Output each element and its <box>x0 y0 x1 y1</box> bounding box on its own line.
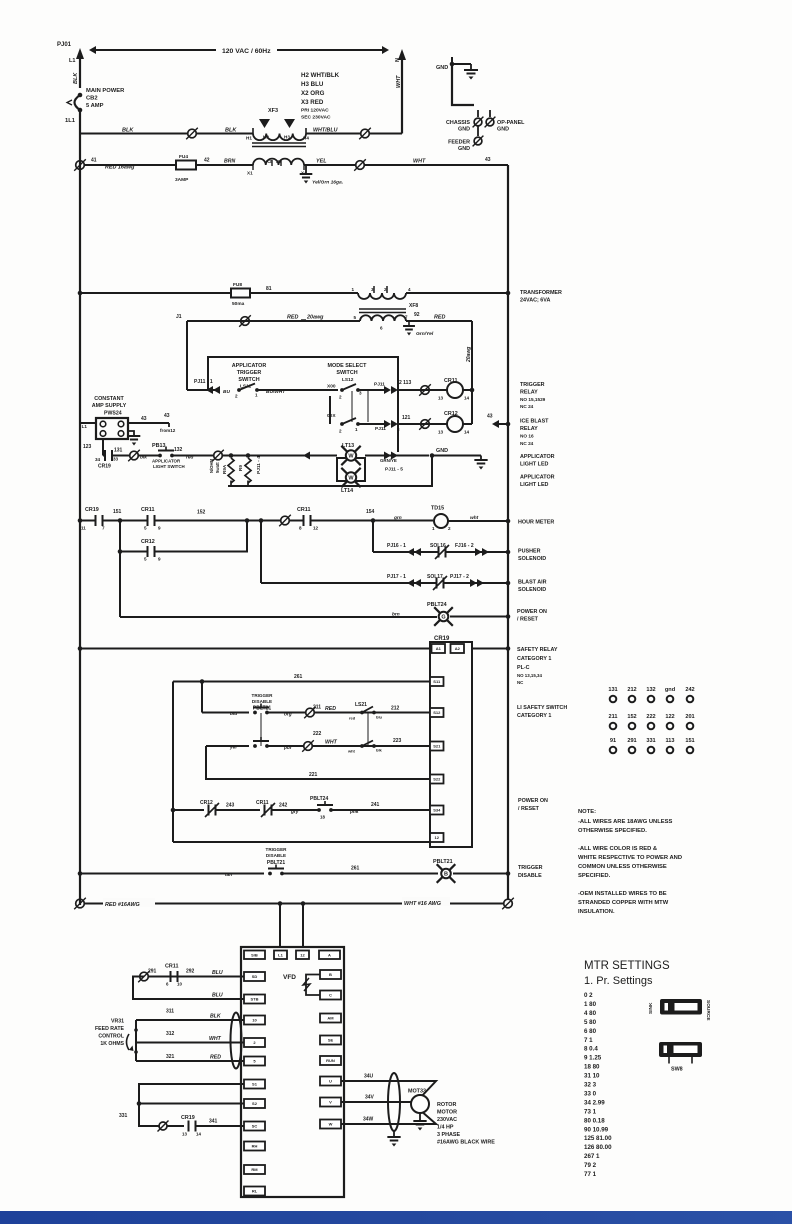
wire GND earth <box>432 456 488 470</box>
label CONSTANT AMP SUPPLY <box>92 396 127 417</box>
terminal SE <box>320 1036 341 1045</box>
svg-text:12: 12 <box>435 835 440 840</box>
svg-text:FJ16 - 2: FJ16 - 2 <box>455 543 474 549</box>
label N <box>395 58 401 62</box>
wire yel row <box>206 745 249 751</box>
label PJ11 3 121 <box>375 415 411 432</box>
svg-text:brn: brn <box>392 612 400 618</box>
svg-text:S21: S21 <box>433 744 441 749</box>
node L1 up-arrow <box>69 48 84 88</box>
svg-text:242: 242 <box>279 803 288 809</box>
wire BU/WHT <box>257 389 338 395</box>
wire PJ17 row <box>261 574 421 587</box>
svg-text:WHITE RESPECTIVE TO POWER AND: WHITE RESPECTIVE TO POWER AND <box>578 855 682 861</box>
wire pur <box>267 745 304 751</box>
svg-text:CR19: CR19 <box>85 507 99 513</box>
svg-text:N/OHM: N/OHM <box>209 459 214 473</box>
wire N vertical <box>398 49 406 134</box>
svg-text:WHT: WHT <box>209 1036 222 1042</box>
svg-text:73 1: 73 1 <box>584 1108 597 1115</box>
pilot lamp PBLT24 <box>427 602 453 626</box>
svg-text:113: 113 <box>665 738 674 744</box>
svg-text:5 AMP: 5 AMP <box>86 103 104 109</box>
label PUSHER SOLENOID <box>518 549 546 563</box>
svg-text:BLU: BLU <box>212 970 223 976</box>
wire PJ17 to bus <box>487 581 510 586</box>
svg-text:211: 211 <box>313 705 321 711</box>
svg-text:A1: A1 <box>436 646 442 651</box>
svg-text:1K OHMS: 1K OHMS <box>100 1041 124 1047</box>
wire WHT row <box>364 157 508 165</box>
svg-text:NC 24: NC 24 <box>520 441 534 446</box>
svg-text:8 0.4: 8 0.4 <box>584 1046 598 1053</box>
wire 00X box <box>329 396 331 424</box>
svg-text:COMMON UNLESS OTHERWISE: COMMON UNLESS OTHERWISE <box>578 864 667 870</box>
wire CR19 to bus <box>472 646 510 651</box>
svg-text:2: 2 <box>448 526 451 531</box>
label 81 <box>266 286 272 292</box>
terminal W <box>320 1120 341 1129</box>
svg-text:42: 42 <box>204 158 210 164</box>
svg-text:92: 92 <box>414 312 420 318</box>
svg-text:SE: SE <box>328 1038 334 1043</box>
svg-text:B: B <box>444 872 448 878</box>
terminal S34 <box>430 806 444 815</box>
svg-text:NC: NC <box>517 680 524 685</box>
terminal 10 <box>244 1016 265 1025</box>
svg-text:Yel/Grn 16ga.: Yel/Grn 16ga. <box>312 180 343 186</box>
node grid row 1 <box>608 687 694 702</box>
svg-text:0 2: 0 2 <box>584 992 593 999</box>
terminal 2 <box>244 1038 265 1047</box>
svg-text:SOLENOID: SOLENOID <box>518 556 546 562</box>
svg-text:RH: RH <box>252 1144 258 1149</box>
label MTR SETTINGS <box>584 960 670 987</box>
contact CR12 nc <box>200 800 235 817</box>
wire to PB13 <box>138 455 160 457</box>
terminal RH <box>244 1142 265 1151</box>
switch LS21 <box>349 702 400 721</box>
svg-text:CB2: CB2 <box>86 96 98 102</box>
connector 222 <box>302 731 321 752</box>
bottom blue bar <box>0 1211 792 1224</box>
svg-text:H3 BLU: H3 BLU <box>301 81 324 88</box>
connector J1 row <box>239 315 251 327</box>
label BU <box>223 389 230 395</box>
svg-text:1: 1 <box>432 526 435 531</box>
node 1L1 <box>65 118 76 124</box>
svg-text:X00: X00 <box>327 384 336 390</box>
svg-text:33 0: 33 0 <box>584 1090 597 1097</box>
svg-text:261: 261 <box>294 674 303 680</box>
svg-text:43: 43 <box>141 416 147 422</box>
svg-text:CR11: CR11 <box>297 507 310 513</box>
svg-text:CR12: CR12 <box>141 539 155 545</box>
wire FJ16-2 <box>446 543 493 556</box>
svg-text:8: 8 <box>299 526 302 531</box>
wire org <box>267 712 306 718</box>
ground cable <box>387 1131 400 1147</box>
svg-text:3AMP: 3AMP <box>175 177 189 183</box>
terminal L1 <box>274 951 287 960</box>
svg-text:PJ11 - 1: PJ11 - 1 <box>194 379 213 385</box>
wire BLK row 2 <box>196 128 253 134</box>
svg-text:3: 3 <box>359 391 362 396</box>
svg-text:PJ11 - 5: PJ11 - 5 <box>385 467 403 473</box>
label block H2 wiring <box>301 72 340 121</box>
terminal S2 <box>244 1099 265 1108</box>
label CR19 relay <box>434 636 450 642</box>
svg-text:9 1.25: 9 1.25 <box>584 1055 602 1062</box>
svg-text:14: 14 <box>464 396 470 401</box>
svg-text:pnk: pnk <box>349 809 359 815</box>
svg-text:DISABLE: DISABLE <box>266 853 286 858</box>
svg-text:NO 13,15,34: NO 13,15,34 <box>517 673 542 678</box>
switch 00X <box>327 413 360 434</box>
svg-text:BLK: BLK <box>73 72 79 84</box>
svg-text:24VAC; 6VA: 24VAC; 6VA <box>520 298 550 304</box>
label 123 <box>83 444 92 450</box>
svg-text:20awg: 20awg <box>306 315 324 321</box>
svg-text:-ALL WIRE COLOR IS RED &: -ALL WIRE COLOR IS RED & <box>578 846 657 852</box>
svg-text:211: 211 <box>608 714 617 720</box>
svg-text:CR12: CR12 <box>444 411 458 417</box>
svg-text:W: W <box>329 1122 333 1127</box>
svg-text:XF3: XF3 <box>268 108 278 114</box>
svg-text:151: 151 <box>113 509 122 515</box>
svg-text:5 80: 5 80 <box>584 1019 597 1026</box>
lamp box LT13 LT14 <box>337 458 365 481</box>
svg-text:LIGHT SWITCH: LIGHT SWITCH <box>153 464 185 469</box>
svg-text:APPLICATOR: APPLICATOR <box>232 363 267 369</box>
vfd box <box>241 947 344 1197</box>
node grid row 2 <box>608 714 694 729</box>
svg-text:X1: X1 <box>247 171 253 176</box>
connector on WHT/BLU <box>359 128 371 140</box>
svg-text:MTR SETTINGS: MTR SETTINGS <box>584 960 670 972</box>
terminal S21 <box>430 742 444 751</box>
svg-text:LS12: LS12 <box>342 377 354 383</box>
ground PWS24 <box>128 431 141 446</box>
switch PBLT21 trigger <box>268 865 284 876</box>
wire LS11 row <box>187 386 220 394</box>
svg-text:267 1: 267 1 <box>584 1153 600 1160</box>
svg-text:5: 5 <box>144 526 147 531</box>
svg-text:WHT: WHT <box>396 75 402 88</box>
contact CR11 hour <box>141 507 161 531</box>
svg-text:6: 6 <box>380 326 383 331</box>
terminal C <box>320 991 341 1000</box>
svg-text:10: 10 <box>177 982 182 987</box>
svg-text:90 10.99: 90 10.99 <box>584 1126 609 1133</box>
svg-text:XF8: XF8 <box>409 303 418 309</box>
svg-text:PJ11: PJ11 <box>374 382 385 388</box>
pot VR31 wires <box>136 1009 244 1062</box>
svg-text:WHT: WHT <box>413 159 426 165</box>
switch PBLT21 pole2 <box>253 737 269 748</box>
connector on BLK row <box>186 128 198 140</box>
wire PWS24 43 <box>128 413 176 433</box>
wire J1 row <box>176 314 360 321</box>
fuse FU4 <box>175 154 196 183</box>
svg-text:SOL16: SOL16 <box>430 543 446 549</box>
transformer XF8 secondary <box>353 312 419 331</box>
svg-text:212: 212 <box>391 706 400 712</box>
svg-text:-OEM INSTALLED WIRES TO BE: -OEM INSTALLED WIRES TO BE <box>578 891 667 897</box>
svg-text:R9A: R9A <box>222 464 227 474</box>
node GND dot <box>436 57 454 71</box>
wire YEL <box>304 159 356 166</box>
label APPLICATOR LIGHT LED 2 <box>520 475 555 489</box>
svg-text:13: 13 <box>438 396 444 401</box>
svg-text:13: 13 <box>182 1132 187 1137</box>
label TRANSFORMER 24VAC <box>520 290 562 304</box>
svg-text:222: 222 <box>646 714 655 720</box>
svg-text:FU4: FU4 <box>179 154 188 160</box>
wire BLU rows <box>133 970 244 999</box>
svg-text:INSULATION.: INSULATION. <box>578 909 615 915</box>
wire 152 <box>155 510 282 523</box>
svg-text:331: 331 <box>119 1113 128 1119</box>
svg-text:PBLT24: PBLT24 <box>310 796 328 802</box>
transformer XF8 primary <box>351 286 411 299</box>
wire PJ17-2 <box>444 574 488 587</box>
connector RED16AWG <box>74 898 86 910</box>
terminal RL <box>244 1187 265 1196</box>
svg-text:H2 WHT/BLK: H2 WHT/BLK <box>301 72 340 79</box>
wire to lamps <box>248 452 337 460</box>
switch LS11 <box>235 384 259 399</box>
svg-text:CR19: CR19 <box>181 1115 195 1121</box>
svg-text:NO 15,1529: NO 15,1529 <box>520 397 546 402</box>
label GRN/YE PJ11-5 <box>380 458 403 473</box>
svg-text:PJ11 - 4: PJ11 - 4 <box>256 456 262 474</box>
wire lamp return <box>228 456 432 487</box>
wire W <box>341 1110 436 1124</box>
svg-text:-ALL WIRES ARE 18AWG UNLESS: -ALL WIRES ARE 18AWG UNLESS <box>578 819 673 825</box>
svg-text:33: 33 <box>113 457 119 462</box>
svg-text:blu: blu <box>376 715 383 720</box>
svg-text:blu: blu <box>230 711 237 717</box>
svg-text:PJ17 - 1: PJ17 - 1 <box>387 574 406 580</box>
svg-text:3: 3 <box>371 287 374 292</box>
svg-text:gnd: gnd <box>665 687 676 693</box>
label MAIN POWER CB2 5 AMP <box>86 88 125 109</box>
connector WHT16AWG <box>502 898 514 910</box>
wire to CR12 coil <box>398 423 447 425</box>
svg-text:BU/WHT: BU/WHT <box>266 389 286 395</box>
svg-text:80 0.18: 80 0.18 <box>584 1117 605 1124</box>
svg-text:SWITCH: SWITCH <box>336 370 357 376</box>
svg-text:B: B <box>329 972 332 977</box>
resistor R9A <box>209 458 234 483</box>
svg-text:131: 131 <box>608 687 617 693</box>
svg-text:TRIGGER: TRIGGER <box>518 865 543 871</box>
svg-text:OTHERWISE SPECIFIED.: OTHERWISE SPECIFIED. <box>578 828 647 834</box>
wire pnk 241 <box>331 802 430 815</box>
terminal SD <box>244 972 265 981</box>
wire safety box bottom <box>173 841 430 843</box>
svg-text:34U: 34U <box>364 1074 374 1080</box>
svg-text:1/4 HP: 1/4 HP <box>437 1125 454 1131</box>
terminal S12 <box>430 708 444 717</box>
svg-text:13: 13 <box>438 430 444 435</box>
label 41 <box>91 158 97 164</box>
svg-text:NO 16: NO 16 <box>520 434 534 439</box>
fuse FU8 <box>231 282 250 307</box>
wire VFD L1 drop <box>278 901 283 947</box>
label POWER ON RESET 2 <box>518 798 548 812</box>
relay CR19 body <box>430 642 472 847</box>
lamp LT14 <box>341 468 361 494</box>
svg-text:RL: RL <box>252 1189 258 1194</box>
contact CR11b <box>289 507 319 531</box>
svg-text:S34: S34 <box>433 808 441 813</box>
wire to resistors <box>222 453 250 458</box>
wire resistor stubs <box>231 481 248 487</box>
svg-text:91: 91 <box>610 738 616 744</box>
svg-text:STRANDED COPPER WITH MTW: STRANDED COPPER WITH MTW <box>578 900 669 906</box>
label TRIGGER DISABLE PBLT21 <box>252 693 274 712</box>
svg-text:221: 221 <box>309 772 318 778</box>
svg-text:BLU: BLU <box>212 993 223 999</box>
svg-text:18: 18 <box>320 815 325 820</box>
svg-text:CATEGORY 1: CATEGORY 1 <box>517 656 551 662</box>
wire PBLT24 row <box>120 612 437 618</box>
svg-text:org: org <box>284 712 292 718</box>
svg-text:3: 3 <box>397 427 400 432</box>
wire 151 <box>103 509 148 523</box>
relay coil CR12 <box>438 411 470 435</box>
svg-text:1 80: 1 80 <box>584 1001 597 1008</box>
svg-text:CONTROL: CONTROL <box>98 1034 124 1040</box>
wire XF8 RED right <box>406 315 472 322</box>
dip switch sink/source <box>648 999 711 1021</box>
svg-text:S11: S11 <box>433 679 441 684</box>
svg-text:34W: 34W <box>363 1117 374 1123</box>
svg-text:292: 292 <box>186 969 195 975</box>
svg-text:RED: RED <box>325 706 336 712</box>
svg-text:121: 121 <box>402 415 411 421</box>
svg-text:GND: GND <box>458 146 470 152</box>
svg-text:152: 152 <box>197 510 206 516</box>
svg-text:2: 2 <box>339 395 342 400</box>
svg-text:230VAC: 230VAC <box>437 1117 457 1123</box>
label TRIGGER RELAY <box>520 382 546 409</box>
svg-text:GND: GND <box>436 448 448 454</box>
svg-text:H3: H3 <box>284 135 290 140</box>
wire V <box>341 1095 411 1103</box>
svg-text:43: 43 <box>485 157 491 163</box>
svg-text:12: 12 <box>313 526 319 531</box>
svg-text:BLK: BLK <box>225 128 237 134</box>
svg-text:#16AWG BLACK WIRE: #16AWG BLACK WIRE <box>437 1140 495 1146</box>
svg-text:2: 2 <box>339 429 342 434</box>
svg-text:1: 1 <box>351 287 354 292</box>
svg-text:RED: RED <box>287 315 298 321</box>
terminal STB <box>244 995 265 1004</box>
svg-text:gry: gry <box>290 809 299 815</box>
cable oval left <box>231 1013 242 1069</box>
power supply PWS24 <box>80 418 128 439</box>
wire left bus <box>79 110 81 905</box>
terminal V <box>320 1098 341 1107</box>
solenoid SOL17 <box>414 574 447 590</box>
link LS21 <box>367 713 369 746</box>
svg-text:OP-PANEL: OP-PANEL <box>497 120 525 126</box>
svg-text:341: 341 <box>209 1119 218 1125</box>
svg-text:9: 9 <box>158 557 161 562</box>
branch PJ16 vertical <box>372 521 374 553</box>
wire RED S12 <box>314 706 430 713</box>
label VFD <box>283 974 296 981</box>
wire trigger disable row <box>78 871 264 878</box>
transformer XF8 core <box>359 303 418 313</box>
svg-text:TD15: TD15 <box>431 506 444 512</box>
svg-text:331: 331 <box>646 738 655 744</box>
svg-text:RUN: RUN <box>326 1058 335 1063</box>
wire blk <box>112 455 147 461</box>
svg-text:red: red <box>186 455 195 461</box>
wire 243 <box>216 809 261 811</box>
contact CR11 vfd <box>165 964 195 987</box>
wire gry <box>272 809 320 815</box>
svg-text:123: 123 <box>83 444 92 450</box>
svg-text:A2: A2 <box>455 646 461 651</box>
transformer XF3 flags <box>259 108 295 128</box>
node grid row 3 <box>610 738 695 753</box>
svg-text:CR11: CR11 <box>141 507 154 513</box>
svg-text:PJ01: PJ01 <box>57 42 72 48</box>
svg-text:tan: tan <box>225 872 232 878</box>
svg-text:11: 11 <box>81 526 86 531</box>
svg-text:12: 12 <box>300 952 305 957</box>
wire XF8 to bus <box>406 291 510 296</box>
wire hour row a <box>80 520 95 522</box>
svg-text:MODE SELECT: MODE SELECT <box>328 363 368 369</box>
connector OP-PANEL GND <box>485 110 526 133</box>
svg-text:18 80: 18 80 <box>584 1064 600 1071</box>
ground chassis earth <box>452 64 478 80</box>
wire red <box>172 455 214 461</box>
svg-text:14: 14 <box>464 430 470 435</box>
junction bus hour row <box>78 518 83 523</box>
label PJ11 2 113 <box>374 380 411 388</box>
svg-text:HOUR METER: HOUR METER <box>518 520 554 526</box>
svg-text:3 PHASE: 3 PHASE <box>437 1132 460 1138</box>
svg-text:AM: AM <box>327 1016 334 1021</box>
wire safety box top <box>173 674 430 684</box>
solenoid SOL16 <box>414 543 449 559</box>
svg-text:L1: L1 <box>69 58 75 64</box>
wire label BLK vertical <box>73 72 79 84</box>
label APPLICATOR TRIGGER SWITCH <box>232 363 267 383</box>
varistor B-C <box>303 975 320 996</box>
svg-text:yel: yel <box>229 745 237 751</box>
label WHT vertical <box>396 75 402 88</box>
svg-text:POWER ON: POWER ON <box>518 798 548 804</box>
svg-text:291: 291 <box>148 969 157 975</box>
svg-text:DISABLE: DISABLE <box>518 873 542 879</box>
svg-text:81: 81 <box>266 286 272 292</box>
svg-text:pur: pur <box>283 745 293 751</box>
terminal L2 <box>296 951 309 960</box>
connector 211 <box>304 705 321 719</box>
svg-text:34: 34 <box>95 457 101 462</box>
svg-text:43: 43 <box>487 414 493 420</box>
wire SC <box>196 1125 245 1127</box>
svg-text:1: 1 <box>255 393 258 398</box>
